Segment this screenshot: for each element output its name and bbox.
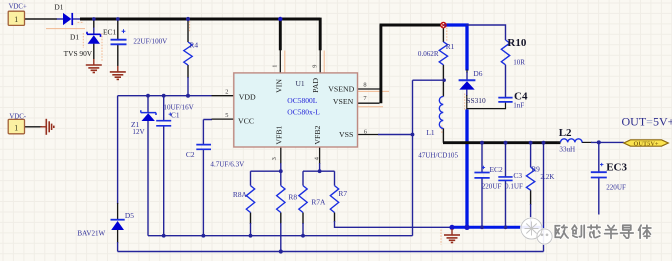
- wire TVS top black: [93, 19, 95, 28]
- svg-text:EC1: EC1: [103, 27, 116, 36]
- svg-text:VDC-: VDC-: [9, 113, 26, 120]
- resistor R10: [501, 40, 509, 65]
- svg-text:PAD: PAD: [311, 78, 320, 93]
- diode D1: [63, 13, 73, 25]
- svg-text:6: 6: [364, 128, 367, 135]
- wire D6 top lead: [466, 72, 468, 80]
- wire VDC- to ground: [25, 126, 42, 128]
- wire CS node thick blue: [444, 25, 467, 71]
- wire output to feedback: [543, 143, 545, 252]
- wire TVS bottom: [93, 44, 95, 59]
- inductor L2: [561, 139, 583, 143]
- wire C3 top: [505, 143, 507, 177]
- wire VDD to D5: [117, 96, 119, 204]
- node ERC markers: [46, 21, 465, 245]
- svg-text:0.062R: 0.062R: [418, 50, 439, 58]
- wire EC1 bottom: [117, 44, 119, 66]
- svg-text:C1: C1: [171, 111, 180, 120]
- wire R7 to PGND: [335, 221, 452, 227]
- wire VDD net: [118, 95, 212, 97]
- wire CS to R10: [466, 25, 506, 40]
- svg-text:VCC: VCC: [238, 116, 254, 125]
- wire VDC+ port to D1: [25, 18, 58, 20]
- pin 2 stub: [212, 95, 235, 97]
- ground VDC-: [40, 119, 54, 135]
- wire VIN top bus: [80, 18, 320, 21]
- svg-text:OC580x-L: OC580x-L: [287, 107, 320, 116]
- resistor R1: [439, 42, 447, 65]
- wire R9 bottom: [530, 204, 532, 227]
- junction C1 VDD: [162, 94, 166, 98]
- svg-text:VIN: VIN: [275, 79, 284, 93]
- wire L2 to port: [591, 141, 624, 143]
- junction C3 bus: [504, 141, 508, 145]
- diode D5: [111, 220, 125, 230]
- wire VSEN thick riser: [380, 25, 441, 103]
- svg-text:9: 9: [311, 65, 318, 68]
- svg-text:D6: D6: [473, 69, 482, 78]
- wire bottom feedback net: [118, 251, 544, 253]
- wire D6 top pin: [466, 70, 468, 74]
- svg-text:D1: D1: [70, 33, 79, 42]
- svg-text:R7A: R7A: [311, 198, 326, 207]
- svg-text:0.1UF: 0.1UF: [505, 183, 523, 191]
- wire pin1 drop: [279, 18, 282, 51]
- resistor R7A: [299, 186, 307, 213]
- wire R4 to VDD net: [187, 77, 189, 96]
- pin 6 stub: [358, 134, 379, 136]
- svg-text:EC3: EC3: [606, 161, 627, 173]
- wire Z1 bottom: [147, 121, 149, 236]
- capacitor C1: [156, 113, 172, 126]
- svg-text:OC5800L: OC5800L: [287, 96, 317, 105]
- svg-text:12V: 12V: [132, 128, 145, 136]
- junction VSS: [411, 133, 415, 137]
- svg-text:3: 3: [271, 157, 278, 160]
- pin 7 stub: [358, 102, 380, 104]
- svg-text:1: 1: [14, 15, 18, 24]
- svg-text:VDC+: VDC+: [9, 4, 27, 11]
- junction C2 AGND: [202, 234, 206, 238]
- wire R9 bottom lead: [530, 190, 532, 205]
- svg-text:OUT=5V+: OUT=5V+: [622, 114, 672, 128]
- resistor R8: [277, 186, 285, 213]
- svg-text:C3: C3: [513, 171, 522, 180]
- wire pin9 lower: [319, 50, 321, 73]
- pin 4 stub: [319, 147, 321, 164]
- wire R8A bottom lead: [250, 213, 252, 225]
- wire SW output bus thick: [443, 141, 560, 144]
- junction EC1 top: [116, 17, 120, 21]
- svg-text:L1: L1: [426, 128, 435, 137]
- wire EC2 top: [481, 143, 483, 173]
- wire D5 anode down: [117, 242, 119, 252]
- wire R8 to feedback net: [280, 223, 282, 252]
- port VDC+: [8, 11, 24, 25]
- junction C3 PGND: [504, 225, 508, 229]
- wire L1 bottom lead: [442, 128, 444, 142]
- wire R7 top: [334, 171, 336, 185]
- svg-text:1: 1: [14, 123, 18, 132]
- wire pin3 down: [280, 163, 282, 171]
- svg-text:D5: D5: [125, 211, 134, 220]
- wire R4 top: [187, 19, 189, 42]
- wire C2 bottom: [202, 149, 204, 235]
- wire D5 bottom pin: [117, 230, 119, 243]
- svg-text:VFB1: VFB1: [274, 125, 283, 144]
- svg-text:VDD: VDD: [239, 92, 256, 101]
- wire EC3 top: [598, 142, 600, 172]
- watermark text: [555, 225, 651, 238]
- svg-text:VSEND: VSEND: [328, 84, 354, 93]
- zener Z1: [141, 110, 156, 121]
- svg-text:VSS: VSS: [339, 130, 353, 139]
- wire C1 bottom: [163, 126, 165, 236]
- junction PGND ground: [449, 225, 454, 230]
- svg-text:R10: R10: [507, 37, 526, 49]
- wire R8A bottom: [250, 223, 252, 236]
- wire EC1 top: [117, 19, 119, 40]
- ground EC1: [110, 66, 126, 80]
- svg-text:R8: R8: [288, 193, 297, 202]
- wire D5 top pin: [117, 203, 119, 220]
- junction R8 feedback: [279, 249, 283, 253]
- wire L2 right lead: [582, 141, 592, 143]
- port VDC-: [8, 119, 24, 133]
- svg-text:2: 2: [225, 89, 228, 96]
- svg-text:10R: 10R: [513, 58, 525, 66]
- wire EC2 bottom: [481, 178, 483, 227]
- pin 5 stub: [212, 118, 235, 120]
- wire D1 anode lead: [57, 18, 64, 20]
- junction R4 top: [186, 17, 190, 21]
- svg-text:EC2: EC2: [490, 165, 503, 174]
- TVS diode D1: [87, 32, 101, 44]
- wire pin4 down: [319, 163, 321, 171]
- wire R9 top: [530, 143, 532, 168]
- svg-text:R1: R1: [446, 42, 455, 51]
- wire C1 top: [163, 96, 165, 121]
- wire pin6 to VSS column: [378, 134, 413, 136]
- svg-text:33uH: 33uH: [559, 145, 575, 153]
- resistor R8A: [246, 186, 254, 213]
- svg-text:D1: D1: [54, 2, 63, 11]
- wire pin9 drop: [319, 18, 322, 51]
- diode D6: [459, 80, 476, 89]
- junction pin4: [318, 169, 322, 173]
- wire D1 cathode lead: [73, 18, 81, 20]
- svg-text:2.2K: 2.2K: [540, 173, 555, 181]
- junction EC2 bus: [480, 141, 484, 145]
- junction R9 PGND: [529, 225, 533, 229]
- wire AGND bus: [148, 235, 413, 237]
- wire R7A top: [302, 171, 304, 185]
- capacitor EC2: [474, 166, 489, 178]
- wire R8 top: [280, 171, 282, 185]
- junction R8A AGND: [249, 234, 253, 238]
- svg-text:47UH/CD105: 47UH/CD105: [418, 151, 458, 159]
- wire R7A bottom lead: [302, 213, 304, 225]
- junction fb drop: [542, 141, 546, 145]
- svg-text:TVS 90V: TVS 90V: [64, 49, 93, 58]
- wire VSS jog to CS: [413, 79, 445, 81]
- resistor R7: [330, 186, 338, 213]
- svg-text:OUT5V+: OUT5V+: [634, 140, 659, 147]
- wire TVS top blue: [93, 28, 95, 35]
- wire L2 left lead: [557, 141, 561, 143]
- junction R9 bus: [529, 141, 533, 145]
- svg-text:4.7UF/6.3V: 4.7UF/6.3V: [210, 161, 245, 169]
- ground TVS: [86, 59, 102, 73]
- wire R4 bottom lead: [187, 65, 189, 78]
- wire D6 cathode thick blue: [465, 110, 468, 228]
- svg-text:L2: L2: [559, 127, 572, 139]
- junction TVS top: [92, 17, 96, 21]
- wire R1 top lead: [442, 28, 444, 43]
- wire PGND thick bus: [451, 226, 544, 229]
- wire R1 to L1: [442, 65, 444, 97]
- capacitor C4: [498, 98, 512, 102]
- wire VSS column: [412, 80, 414, 236]
- svg-text:1nF: 1nF: [513, 101, 524, 109]
- wire pin4 cross: [303, 170, 335, 172]
- svg-text:VFB2: VFB2: [313, 125, 322, 144]
- wire pin1 lower: [279, 50, 281, 73]
- wire Z1 top: [147, 96, 149, 112]
- wire VCC to C2: [203, 120, 212, 145]
- svg-text:R9: R9: [531, 165, 540, 174]
- svg-text:R8A: R8A: [233, 190, 248, 199]
- svg-text:VSEN: VSEN: [333, 97, 354, 106]
- wire D6 lower lead blue: [466, 90, 468, 96]
- svg-text:220UF: 220UF: [482, 183, 502, 191]
- junction Z1 VDD: [146, 94, 150, 98]
- svg-text:5: 5: [225, 112, 228, 119]
- capacitor EC1: [111, 29, 127, 44]
- pin 8 stub: [358, 88, 380, 90]
- ground PGND: [444, 229, 460, 243]
- svg-text:22UF/100V: 22UF/100V: [133, 38, 168, 46]
- junction C1 AGND: [162, 234, 166, 238]
- wire pin3 cross: [251, 170, 281, 172]
- junction pin1 bus: [278, 17, 282, 21]
- junction pin3: [279, 169, 283, 173]
- svg-text:220UF: 220UF: [606, 183, 626, 191]
- op-amp U1 OC5800L body: [234, 73, 358, 147]
- wire R7 bottom lead: [334, 213, 336, 223]
- svg-text:8: 8: [363, 81, 366, 88]
- wire C3 bottom: [505, 181, 507, 227]
- watermark logo: [520, 217, 553, 245]
- svg-text:R7: R7: [338, 189, 347, 198]
- wire D6 lower lead: [466, 95, 468, 110]
- wire R10 to C4: [505, 65, 507, 97]
- svg-text:SS310: SS310: [466, 96, 486, 105]
- svg-text:R4: R4: [189, 40, 198, 49]
- inductor L1: [439, 96, 443, 128]
- junction EC3 tap: [597, 140, 601, 144]
- wire R8 bottom lead: [280, 213, 282, 225]
- svg-text:U1: U1: [296, 79, 305, 88]
- junction CS jog: [443, 79, 446, 82]
- pin 3 stub: [280, 147, 282, 164]
- wire EC3 bottom: [598, 178, 600, 215]
- junction R7A AGND: [301, 234, 305, 238]
- junction D6 PGND: [464, 225, 469, 230]
- svg-text:BAV21W: BAV21W: [77, 230, 105, 238]
- resistor R9: [526, 167, 534, 190]
- wire R7A bottom: [302, 223, 304, 236]
- capacitor C2: [196, 145, 211, 150]
- port OUT5V+: [624, 140, 669, 148]
- junction R4 VDD: [186, 94, 190, 98]
- junction EC2 PGND: [480, 225, 484, 229]
- svg-text:1: 1: [272, 65, 279, 68]
- svg-text:C2: C2: [186, 150, 195, 159]
- op-amp U1 part numbers: [287, 96, 320, 116]
- capacitor C3: [498, 177, 512, 181]
- wire R8A top: [250, 171, 252, 185]
- capacitor EC3: [591, 163, 607, 178]
- wire C4 bottom corner: [467, 102, 506, 108]
- resistor R4: [184, 42, 192, 65]
- node CS red junction marker: [441, 22, 446, 27]
